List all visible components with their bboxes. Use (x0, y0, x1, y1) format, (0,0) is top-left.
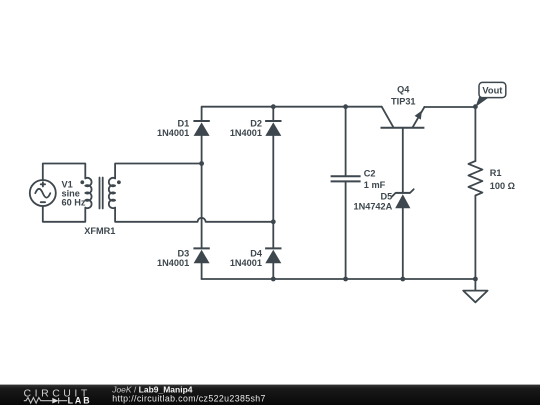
D1 labels (157, 119, 189, 139)
svg-text:1N4001: 1N4001 (230, 128, 262, 138)
wire V1 bottom to XFMR1 primary bottom (43, 206, 86, 222)
svg-text:D2: D2 (250, 119, 262, 129)
footer watermark bar (0, 385, 540, 405)
wire Q4 base lead down to D5 (402, 128, 404, 193)
svg-text:100 Ω: 100 Ω (490, 181, 515, 191)
voltage source V1 (30, 180, 56, 206)
wire D3 anode to bottom rail (201, 263, 203, 279)
svg-text:1N4001: 1N4001 (230, 258, 262, 268)
node Vout flag (475, 82, 505, 107)
svg-text:D1: D1 (177, 119, 189, 129)
svg-text:Vout: Vout (482, 86, 502, 96)
svg-text:Q4: Q4 (397, 85, 410, 95)
svg-text:1N4001: 1N4001 (157, 128, 189, 138)
junction D4 at bottom rail (271, 277, 276, 282)
junction bottom rail at ground (473, 277, 478, 282)
wire V1 top to XFMR1 primary top (43, 164, 86, 181)
diode D3 (193, 248, 209, 263)
wire D1 anode down through crossover to D3 cathode (201, 136, 203, 249)
svg-text:60 Hz: 60 Hz (62, 197, 86, 207)
D4 labels (230, 248, 263, 268)
wire Vout node to R1 top (474, 107, 476, 161)
svg-text:1 mF: 1 mF (364, 180, 386, 190)
wire D2 anode down to D4 cathode (272, 136, 274, 249)
junction secondary bottom at D2 branch (271, 219, 276, 224)
ground (463, 291, 487, 303)
wire D4 anode to bottom rail (272, 263, 274, 279)
svg-text:D5: D5 (381, 191, 393, 201)
svg-text:http://circuitlab.com/cz522u23: http://circuitlab.com/cz522u2385sh7 (112, 394, 266, 404)
svg-text:D4: D4 (250, 248, 263, 258)
D3 labels (157, 248, 189, 268)
transistor Q4 emitter lead with arrow (413, 107, 425, 127)
junction D2 branch at top rail (271, 104, 276, 109)
transistor Q4 base bar (381, 127, 425, 129)
wire D2 cathode to top rail (272, 107, 274, 121)
XFMR1 primary polarity dot (80, 180, 84, 184)
transformer XFMR1 primary winding (85, 178, 91, 208)
junction secondary top at D1 branch (199, 161, 204, 166)
D2 labels (230, 119, 262, 139)
diode D1 (193, 121, 209, 136)
transformer XFMR1 core (100, 178, 103, 209)
R1 labels (490, 168, 515, 191)
wire R1 bottom to bottom rail (474, 196, 476, 280)
svg-text:TIP31: TIP31 (391, 97, 416, 107)
transformer XFMR1 secondary winding (109, 178, 115, 208)
svg-text:1N4742A: 1N4742A (353, 202, 392, 212)
wire C2 bottom lead (345, 181, 347, 279)
wire XFMR1 secondary bottom to D2 branch with hop over D1 branch (115, 208, 273, 222)
wire ground stub (474, 279, 476, 291)
junction C2 bottom at bottom rail (343, 277, 348, 282)
zener diode D5 (392, 189, 414, 208)
wire C2 top lead (345, 107, 347, 177)
wire bottom rail (202, 278, 476, 280)
XFMR1 secondary polarity dot (117, 180, 121, 184)
wire top rail (202, 107, 382, 121)
V1 labels (62, 179, 86, 207)
svg-text:D3: D3 (177, 248, 189, 258)
footer logo resistor-diode doodle (24, 398, 67, 404)
svg-text:XFMR1: XFMR1 (84, 226, 115, 236)
resistor R1 (468, 161, 482, 196)
svg-text:C2: C2 (364, 169, 376, 179)
C2 labels (364, 169, 386, 190)
transistor Q4 collector lead (382, 107, 393, 127)
diode D2 (265, 121, 281, 136)
diode D4 (265, 248, 281, 263)
capacitor C2 (331, 176, 361, 181)
wire Q4 emitter to Vout node (424, 106, 475, 108)
junction D5 at bottom rail (400, 277, 405, 282)
junction C2 top at top rail (343, 104, 348, 109)
junction Vout node (473, 104, 478, 109)
svg-text:1N4001: 1N4001 (157, 258, 189, 268)
wire D5 anode to bottom rail (402, 208, 404, 279)
wire XFMR1 secondary top to D1 branch (115, 164, 202, 179)
Q4 labels (391, 85, 416, 107)
svg-text:LAB: LAB (68, 395, 91, 405)
svg-text:R1: R1 (490, 168, 502, 178)
D5 labels (353, 191, 392, 211)
